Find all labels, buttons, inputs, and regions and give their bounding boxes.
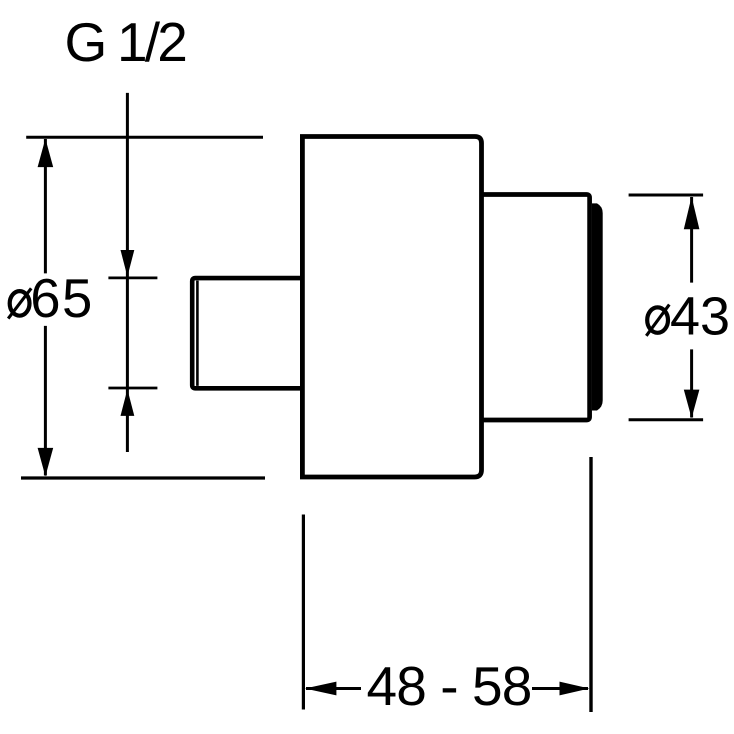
dim 48-58: right extension line bbox=[589, 457, 592, 712]
svg-text:48 - 58: 48 - 58 bbox=[367, 655, 532, 717]
svg-text:65: 65 bbox=[30, 268, 94, 329]
dim ø43: vertical line lower segment bbox=[690, 349, 693, 417]
dim ø65: label diameter symbol bbox=[10, 291, 30, 316]
dim G1/2: arrow up bbox=[121, 389, 135, 416]
dim ø43: arrow up bbox=[684, 197, 700, 230]
dim 48-58: arrow left bbox=[305, 682, 337, 696]
right sleeve section bbox=[482, 195, 590, 421]
threaded inlet pipe bbox=[192, 278, 302, 388]
dim ø65: top extension line bbox=[26, 136, 263, 139]
dim G1/2: bottom tick bbox=[108, 387, 157, 390]
dim 48-58: line left segment bbox=[306, 687, 361, 690]
dim G1/2: top tick bbox=[108, 276, 157, 279]
dim ø65: bottom extension line bbox=[21, 476, 265, 479]
dim G1/2: arrow down bbox=[121, 250, 135, 277]
end cap (black band) bbox=[592, 203, 603, 410]
main valve body outline bbox=[302, 137, 481, 478]
dim 48-58: arrow right bbox=[560, 682, 590, 696]
dim ø65: arrow down bbox=[38, 448, 54, 477]
svg-text:43: 43 bbox=[670, 287, 730, 347]
dim 48-58: line right segment bbox=[532, 687, 588, 690]
svg-text:G 1/2: G 1/2 bbox=[65, 11, 186, 73]
dim ø43: arrow down bbox=[684, 390, 700, 419]
dim ø65: vertical line lower segment bbox=[44, 326, 47, 476]
dim ø43: bottom extension line bbox=[629, 418, 704, 421]
dim ø65: vertical line upper segment bbox=[44, 139, 47, 273]
pipe end inner line bbox=[196, 281, 199, 386]
dim G1/2: vertical line bbox=[126, 93, 129, 452]
dim ø43: label bbox=[647, 307, 668, 332]
dim ø65: arrow up bbox=[38, 139, 54, 168]
dim ø43: vertical line upper segment bbox=[690, 197, 693, 283]
dim ø43: top extension line bbox=[629, 194, 704, 197]
dim 48-58: left extension line bbox=[302, 515, 305, 710]
